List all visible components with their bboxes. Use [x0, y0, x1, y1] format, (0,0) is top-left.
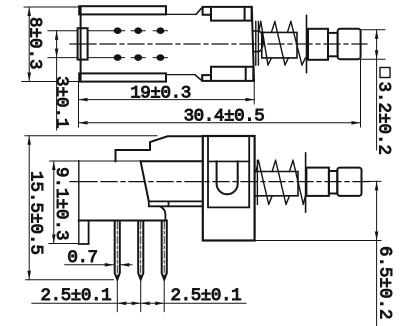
top view lower tab chamfer	[195, 75, 202, 81]
dimension 15.5±0.5 extension lines	[25, 136, 157, 280]
top view spring seat	[253, 31, 263, 52]
side view plunger shaft	[306, 168, 329, 196]
dimension 8±0.3 arrows	[27, 7, 31, 82]
side view spring end line	[305, 153, 307, 212]
svg-text:19±0.3: 19±0.3	[130, 84, 191, 104]
side view housing top line	[208, 160, 249, 162]
top view spring end line	[306, 16, 308, 73]
side view shaft under spring	[255, 172, 298, 196]
dimension 2.5±0.1 arrows	[117, 302, 164, 306]
side view housing inner walls	[208, 136, 249, 207]
svg-text:2.5±0.1: 2.5±0.1	[41, 286, 112, 306]
dimension 3.2 square symbol	[380, 68, 390, 78]
side view body top edge	[141, 160, 203, 162]
dimension 8±0.3 line	[28, 7, 30, 82]
side view front plate edge	[78, 161, 80, 244]
dimension 6.5±0.2 extension lines	[255, 181, 381, 240]
dimension 6.5±0.2 line	[376, 181, 378, 326]
side view bracket top profile	[116, 136, 203, 161]
dimension 9.1±0.3 extension lines	[49, 161, 140, 244]
side view bracket bend	[160, 206, 165, 220]
top view spring	[256, 22, 306, 66]
dimension 0.7 lines	[65, 264, 132, 266]
top view centerline	[70, 43, 96, 45]
dimension 19±0.3 line	[79, 99, 255, 101]
side view plunger neck	[329, 171, 337, 194]
svg-text:3.2±0.2: 3.2±0.2	[374, 82, 394, 156]
dimension 9.1±0.3 arrows	[52, 161, 56, 244]
dimension 6.5±0.2 arrows	[375, 181, 379, 240]
dimension 9.1±0.3 line	[53, 161, 55, 244]
side view housing block	[203, 136, 255, 241]
top view body top bar	[79, 6, 166, 14]
dimension 3.2 extension lines	[361, 30, 385, 59]
side view plunger end cap	[337, 168, 361, 196]
dimension 8±0.3 extension lines	[22, 7, 79, 82]
dimension 3.2 line	[376, 30, 378, 150]
top view upper-right edge line	[166, 13, 196, 15]
dimension 15.5±0.5 arrows	[27, 136, 31, 280]
side view body left edge	[141, 161, 149, 201]
side view keycap slot	[217, 161, 238, 194]
dimension 0.7 arrows	[105, 263, 130, 267]
top view upper tab	[203, 7, 252, 21]
top view plunger shaft	[308, 29, 328, 60]
top view body left edge	[80, 6, 82, 81]
svg-text:3±0.1: 3±0.1	[51, 76, 71, 129]
side view centerline	[70, 181, 97, 183]
dimension 3.2 arrows	[375, 30, 379, 59]
dimension 30.4±0.5 extension line right	[360, 59, 362, 127]
side view front lug	[79, 221, 89, 245]
dimension 19±0.3 extension lines	[79, 81, 255, 127]
side view pin 2	[138, 221, 143, 280]
top view lower tab	[202, 67, 253, 81]
svg-text:9.1±0.3: 9.1±0.3	[51, 167, 71, 241]
top view contact dots	[114, 27, 165, 60]
top view plunger end cap	[338, 29, 361, 59]
svg-text:8±0.3: 8±0.3	[25, 17, 45, 70]
dimension 2.5±0.1 line	[32, 302, 246, 304]
svg-text:30.4±0.5: 30.4±0.5	[184, 107, 265, 127]
top view lower-right edge line	[166, 74, 195, 76]
side view pin centerlines	[117, 222, 164, 278]
dimension 30.4±0.5 line	[79, 122, 361, 124]
svg-text:2.5±0.1: 2.5±0.1	[171, 286, 242, 306]
svg-text:15.5±0.5: 15.5±0.5	[26, 171, 46, 255]
top view plunger neck	[328, 33, 338, 56]
side view body bottom edge	[149, 201, 203, 206]
dimension 3±0.1 line	[56, 31, 58, 130]
side view pin 1	[115, 221, 120, 280]
dimension 30.4±0.5 arrows	[79, 121, 361, 125]
top view contact row line upper	[48, 30, 167, 32]
side view bracket foot	[79, 220, 166, 222]
top view body right edge	[252, 7, 254, 81]
top view upper tab chamfer	[196, 7, 203, 14]
svg-text:0.7: 0.7	[67, 248, 97, 268]
side view spring	[255, 160, 306, 204]
side view pin 3	[162, 221, 167, 280]
top view body bottom bar	[79, 73, 166, 81]
top view front boss	[78, 28, 88, 59]
dimension 3±0.1 arrows	[55, 31, 59, 58]
dimension 19±0.3 arrows	[79, 98, 255, 102]
svg-text:6.5±0.2: 6.5±0.2	[375, 246, 395, 320]
top view contact row line lower	[48, 57, 167, 59]
top view shaft under spring	[262, 32, 297, 58]
side view pin extension lines	[117, 280, 164, 312]
dimension 15.5±0.5 line	[28, 136, 30, 280]
